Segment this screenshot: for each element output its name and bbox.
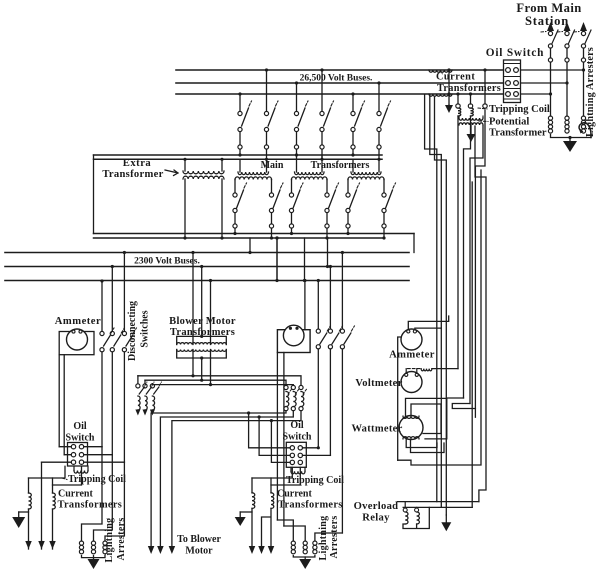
wire instrument run 8: [475, 126, 486, 502]
lightning arrester center 3: [313, 541, 317, 545]
wire instrument run 6: [470, 126, 483, 404]
wire blower secondary run B: [145, 380, 286, 385]
wire 26500V bus phase 1: [176, 69, 504, 71]
main transformer bank 2 secondary: [292, 177, 328, 180]
svg-text:Disconnecting: Disconnecting: [127, 301, 138, 361]
svg-text:Current: Current: [436, 72, 475, 83]
HV disconnect switch column 6: [378, 83, 380, 111]
wire feeder 3 down to lightning arrester: [583, 70, 585, 116]
wire wattmeter loops: [406, 398, 447, 439]
wire center CT lower feeds: [252, 467, 300, 485]
wire transfer bus tie center: [276, 238, 278, 281]
wire left arrester common: [82, 556, 106, 558]
current transformer center lower 2: [270, 478, 272, 493]
oil switch center: [286, 442, 306, 467]
svg-text:Transformers: Transformers: [311, 160, 370, 171]
wire LV transfer bus line B: [94, 237, 385, 239]
lightning arrester left 3: [103, 541, 107, 545]
LV disconnect switch bank 1a: [233, 193, 237, 197]
blower fuse switch 1: [136, 384, 140, 388]
tripping coil center: [291, 471, 305, 474]
wire center arrester common: [293, 556, 315, 558]
wire LV transfer bus drop to bus: [249, 238, 251, 253]
wire blower secondary run C: [152, 384, 293, 387]
wire motor run 2: [160, 411, 293, 546]
center disconnect switch 2: [329, 267, 331, 329]
wire left CT feeds: [29, 466, 82, 485]
wire HV transfer bus line B: [94, 158, 383, 160]
wire lightning arrester common: [551, 134, 592, 138]
ammeter center panel: [277, 330, 310, 353]
wire center oil switch right stubs: [303, 448, 331, 456]
wattmeter meter: [399, 416, 423, 440]
lightning arrester coil feeder 2: [565, 116, 569, 120]
wire extra transformer secondary drops: [184, 179, 186, 238]
wire CT ground lead: [448, 70, 450, 105]
wire to left lightning arresters: [82, 447, 125, 541]
svg-text:Arresters: Arresters: [116, 517, 127, 560]
current transformer left 2: [52, 478, 54, 493]
wire instrument run 5: [464, 116, 471, 398]
wire feeder 2 drop to oil-switch row: [566, 63, 568, 83]
left feeder disconnect switch 3: [123, 253, 125, 332]
feeder arrows to blower motor: [148, 546, 155, 554]
wire LV transfer bus drop right 1: [413, 234, 415, 253]
current transformer on bus phase 3: [429, 94, 452, 96]
wire 26500V bus phase 3: [176, 93, 504, 95]
ground left feeder: [19, 511, 29, 513]
voltmeter meter: [401, 372, 422, 393]
wire overload relay bus A: [398, 501, 479, 503]
svg-text:Transformers: Transformers: [437, 83, 501, 94]
svg-text:Transformers: Transformers: [278, 500, 343, 511]
current transformer on bus phase 1: [429, 70, 452, 72]
current transformer center column 2: [291, 385, 295, 389]
svg-text:Lightning Arresters: Lightning Arresters: [585, 47, 596, 137]
svg-text:Motor: Motor: [185, 546, 213, 557]
wire HV transfer bus line A: [94, 154, 383, 156]
svg-text:Tripping Coil: Tripping Coil: [489, 104, 550, 115]
oil switch main: [504, 60, 521, 103]
svg-text:Current: Current: [58, 489, 93, 500]
ammeter left meter: [67, 329, 88, 350]
extra transformer: [184, 159, 186, 171]
wire overload relay return: [403, 507, 429, 528]
LV disconnect switch bank 2a: [289, 193, 293, 197]
ammeter left panel: [59, 332, 94, 355]
wire voltmeter link with coil: [406, 369, 417, 374]
wire right ammeter loop: [398, 316, 449, 460]
disconnect switch feeder 1: [548, 31, 552, 35]
main transformer bank 3 primary: [352, 159, 354, 172]
wire overload relay feeders: [471, 182, 473, 507]
ground lightning arresters: [563, 141, 577, 152]
svg-text:Switches: Switches: [140, 310, 151, 347]
HV disconnect switch column 5: [352, 94, 354, 111]
wire LV transfer bus drop to bus 3: [304, 238, 306, 281]
incoming feeder line 2 with arrow: [564, 22, 571, 31]
svg-text:Arresters: Arresters: [329, 515, 340, 558]
tripping coil 3: [483, 104, 487, 108]
disconnect switch feeder 3: [581, 31, 585, 35]
wire feeder 2 down to lightning arrester: [566, 83, 568, 116]
wire feeder 3 drop to oil-switch row: [583, 63, 585, 70]
LV disconnect switch bank 3b: [382, 193, 386, 197]
center disconnect switch 1: [317, 281, 319, 329]
wire blower transformer secondary drops: [193, 358, 211, 385]
ground left arresters: [93, 556, 95, 560]
wire center ammeter drops: [277, 353, 284, 527]
wire motor run 1: [151, 411, 286, 546]
svg-text:Station: Station: [525, 14, 569, 28]
HV disconnect switch column 3: [296, 83, 298, 111]
svg-text:To Blower: To Blower: [177, 534, 221, 545]
hook curve at lightning arrester: [579, 123, 591, 138]
feeder out arrows center: [249, 546, 256, 554]
incoming feeder line 3 with arrow: [580, 22, 587, 31]
current transformer center column 3: [299, 385, 303, 389]
potential transformer: [459, 118, 483, 120]
center disconnect switch 3: [341, 253, 343, 329]
svg-text:Ammeter: Ammeter: [55, 316, 101, 327]
wire transfer bus left tie: [93, 155, 95, 234]
wire center outgoing: [252, 508, 271, 546]
wire left feeder row3 outgoing: [41, 462, 43, 541]
LV disconnect switch bank 3a: [346, 193, 350, 197]
ground potential transformer: [470, 125, 472, 135]
main transformer bank 1 primary: [239, 159, 241, 172]
svg-text:Potential: Potential: [489, 117, 529, 128]
lightning arrester coil feeder 1: [548, 116, 552, 120]
wire motor run 3: [172, 411, 301, 546]
ground center feeder: [240, 511, 252, 513]
svg-text:Transformer: Transformer: [489, 128, 547, 139]
ground center arresters: [304, 557, 306, 559]
wire LV transfer bus line A: [94, 233, 415, 235]
svg-text:Wattmeter: Wattmeter: [351, 424, 402, 435]
LV disconnect switch bank 1b: [269, 193, 273, 197]
ground CT lead arrow: [445, 105, 453, 113]
wire instrument run 3 ground stem: [435, 97, 447, 515]
wire drop to tripping coil 1: [457, 94, 459, 104]
wire blower secondary run A: [138, 376, 301, 386]
overload relay coil 2: [415, 508, 419, 512]
wire instrument run 4: [457, 116, 459, 369]
wire 2300V bus phase 3: [5, 280, 409, 282]
wire left feeder outgoing: [29, 509, 53, 541]
svg-text:Lightning: Lightning: [104, 518, 115, 563]
HV disconnect switch column 1: [239, 94, 241, 111]
svg-text:Ammeter: Ammeter: [389, 350, 435, 361]
wire to center lightning arresters: [277, 520, 342, 541]
wire feeder 1 drop to oil-switch row: [550, 63, 552, 94]
svg-text:Oil: Oil: [73, 421, 87, 432]
overload relay coil 1: [403, 508, 407, 512]
blower fuse switch 3: [150, 384, 154, 388]
lightning arrester coil feeder 3: [581, 116, 585, 120]
wire 2300V bus phase 2: [5, 266, 409, 268]
wire feeder 1 down to lightning arrester: [550, 94, 552, 116]
svg-text:Oil: Oil: [290, 420, 304, 431]
oil switch left: [68, 443, 88, 467]
left feeder disconnect switch 2: [111, 267, 113, 332]
tripping coil 1: [456, 104, 460, 108]
svg-text:Extra: Extra: [123, 158, 152, 169]
lightning arrester left 1: [79, 541, 83, 545]
wire 26500V bus phase 2: [176, 82, 504, 84]
wire drop to tripping coil 2: [470, 94, 472, 104]
blower fuse switch 2: [143, 384, 147, 388]
svg-text:Current: Current: [277, 489, 312, 500]
incoming feeder line 1 with arrow: [547, 22, 554, 31]
wire blower feeds from buses: [192, 253, 194, 337]
LV disconnect switch bank 2b: [325, 193, 329, 197]
wire oil-switch row 1 to feeder 3: [521, 69, 584, 71]
main transformer bank 3 secondary: [348, 177, 384, 180]
svg-text:Blower Motor: Blower Motor: [169, 316, 236, 327]
lightning arrester center 1: [291, 541, 295, 545]
HV disconnect switch column 4: [321, 70, 323, 111]
main transformer bank 2 primary: [296, 155, 298, 172]
disconnect switch feeder 2: [565, 31, 569, 35]
svg-text:Oil Switch: Oil Switch: [486, 47, 545, 59]
left feeder disconnect switch 1: [101, 281, 103, 331]
main transformer bank 1 secondary: [235, 177, 272, 180]
arrow pointer to extra transformer: [165, 170, 178, 176]
wire center ammeter feed from bus: [304, 281, 306, 330]
lightning arrester left 2: [91, 541, 95, 545]
wire overload relay bus B: [403, 506, 472, 508]
svg-text:Tripping Coil: Tripping Coil: [68, 474, 126, 485]
wire LV transfer bus drop to bus 4: [327, 238, 329, 267]
current transformer left 1: [28, 478, 30, 493]
current transformer center lower 1: [251, 478, 253, 493]
svg-text:Switch: Switch: [283, 432, 312, 443]
wire drop tripping coil 3: [484, 70, 486, 104]
wire instrument run 7: [475, 110, 485, 409]
wire oil-switch row 3 to feeder 1: [521, 93, 551, 95]
wire ammeter drops: [59, 355, 64, 455]
svg-text:Transformer: Transformer: [102, 169, 163, 180]
tripping coil 2: [468, 104, 472, 108]
ground overload relay arrow: [441, 522, 451, 531]
svg-text:Relay: Relay: [362, 513, 390, 524]
tripping coil left: [74, 471, 88, 474]
current transformer center column 1: [284, 385, 288, 389]
blower motor transformer primary box: [177, 336, 227, 344]
svg-text:From Main: From Main: [516, 1, 581, 15]
lightning arrester center 2: [303, 541, 307, 545]
svg-text:2300 Volt Buses.: 2300 Volt Buses.: [134, 257, 200, 267]
svg-text:26,500 Volt Buses.: 26,500 Volt Buses.: [300, 74, 373, 84]
wire right column bottom boundary: [398, 170, 481, 465]
wire center rows to oil switch: [249, 413, 291, 448]
feeder out arrows left: [25, 541, 32, 549]
wire oil-switch row 2 to feeder 2: [521, 82, 568, 84]
wire 2300V bus phase 1: [5, 252, 409, 254]
svg-text:Lightning: Lightning: [318, 516, 329, 561]
wire left oil switch row connections: [42, 447, 72, 463]
svg-text:Voltmeter: Voltmeter: [355, 378, 402, 389]
wire instrument run 2: [430, 95, 442, 507]
HV disconnect switch column 2: [266, 70, 268, 111]
wire blower switch stubs: [138, 376, 153, 385]
wire LV transfer bus drop to bus 2: [276, 238, 278, 281]
svg-text:Overload: Overload: [354, 501, 399, 512]
blower motor transformer secondary box: [177, 350, 227, 359]
wire instrument run 1: [425, 95, 437, 502]
ammeter center meter: [283, 325, 304, 346]
ammeter right meter: [401, 329, 422, 350]
svg-text:Main: Main: [261, 160, 284, 171]
wire blower transformer through-wires: [193, 336, 211, 358]
